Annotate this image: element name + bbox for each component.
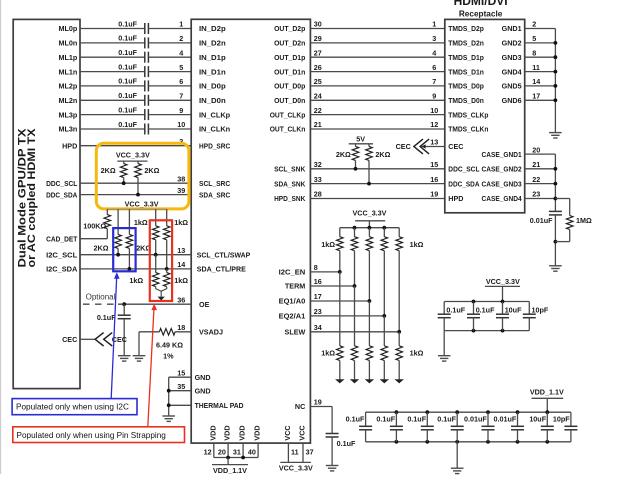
resistor R4 2Kohm I2C_SCL pullup — [117, 209, 119, 234]
wire HPD to IC pin 3 — [80, 145, 191, 147]
svg-text:VDD: VDD — [253, 425, 262, 440]
wire VCC bank top rail — [444, 301, 529, 303]
wire ML lane ML0p left segment — [80, 28, 145, 30]
wire TMDS lane OUT_D1p — [310, 56, 444, 58]
svg-text:VCC: VCC — [283, 425, 292, 440]
ground OE cap — [118, 356, 131, 361]
wire OE to IC pin 36 — [118, 303, 191, 305]
svg-text:31: 31 — [233, 447, 241, 456]
junction GND rail row 2 — [554, 41, 558, 45]
ground NC cap — [326, 466, 339, 471]
svg-text:SDA_SNK: SDA_SNK — [274, 179, 306, 188]
wire GND1 pin 2 — [525, 28, 556, 30]
ground VDD bank — [451, 468, 464, 473]
wire GND6 pin 17 — [525, 99, 556, 101]
page left edge — [0, 0, 2, 474]
strap arrow column 1 — [335, 379, 344, 383]
svg-text:10uF: 10uF — [505, 305, 522, 314]
svg-text:CEC: CEC — [396, 142, 411, 151]
strap arrow down — [158, 297, 165, 301]
wire NC pin 19 — [310, 406, 332, 408]
svg-text:9: 9 — [179, 106, 183, 115]
wire CASE_GND3 pin 22 — [525, 183, 556, 185]
svg-text:0.1uF: 0.1uF — [337, 439, 356, 448]
svg-text:2KΩ: 2KΩ — [336, 150, 351, 159]
svg-text:1kΩ: 1kΩ — [321, 240, 335, 249]
svg-text:0.1uF: 0.1uF — [118, 77, 137, 86]
capacitor 10uF VDD bank — [546, 412, 548, 426]
resistor 1kohm pulldown column 2 — [351, 346, 358, 361]
capacitor 0.1uF VDD bank — [365, 412, 367, 426]
junction VDD bank top — [545, 410, 549, 414]
junction strap column 4 — [382, 314, 386, 318]
wire VCC pin 11 — [287, 443, 289, 462]
svg-text:DDC_SDA: DDC_SDA — [46, 190, 77, 199]
resistor 1kohm pulldown column 3 — [366, 346, 373, 361]
svg-text:40: 40 — [248, 447, 256, 456]
wire VCC bank ground stem — [443, 331, 445, 356]
svg-text:7: 7 — [179, 92, 183, 101]
red leader line — [148, 310, 154, 427]
resistor R13 6.49Kohm VSADJ — [159, 329, 175, 336]
svg-text:GND6: GND6 — [502, 96, 522, 105]
svg-text:10: 10 — [177, 120, 185, 129]
svg-text:OE: OE — [199, 300, 210, 309]
junction GND rail row 4 — [554, 70, 558, 74]
ground IC GND — [162, 416, 175, 421]
wire CASE_GND rail — [554, 154, 556, 211]
svg-text:19: 19 — [430, 190, 438, 199]
svg-text:HPD_SNK: HPD_SNK — [274, 194, 306, 203]
svg-text:TMDS_CLKn: TMDS_CLKn — [448, 125, 488, 134]
capacitor 0.1uF VCC bank — [473, 302, 475, 315]
wire CEC from GPU — [80, 338, 95, 340]
wire GND3 pin 8 — [525, 56, 556, 58]
svg-text:1kΩ: 1kΩ — [174, 218, 188, 227]
wire VDD bank bottom rail — [366, 441, 571, 443]
HDMI/DVI receptacle J1 box — [445, 19, 525, 212]
svg-text:Populated only when using Pin: Populated only when using Pin Strapping — [17, 431, 167, 440]
svg-text:21: 21 — [314, 120, 322, 129]
svg-text:33: 33 — [314, 175, 322, 184]
AC coupling capacitor C3 0.1uF — [144, 52, 146, 63]
wire GND rail left — [168, 377, 170, 416]
svg-text:14: 14 — [532, 77, 540, 86]
svg-text:VDD_1.1V: VDD_1.1V — [530, 388, 564, 397]
svg-text:0.1uF: 0.1uF — [118, 105, 137, 114]
wire cap to ground junction — [554, 215, 556, 266]
svg-text:0.1uF: 0.1uF — [376, 415, 395, 424]
junction strap column 2 — [353, 284, 357, 288]
svg-text:SCL_SNK: SCL_SNK — [274, 165, 306, 174]
wire TMDS lane OUT_D1n — [310, 71, 444, 73]
svg-text:0.1uF: 0.1uF — [118, 19, 137, 28]
capacitor 0.01uF VDD bank — [517, 412, 519, 426]
svg-text:0.01uF: 0.01uF — [494, 415, 517, 424]
svg-text:32: 32 — [314, 160, 322, 169]
svg-text:2: 2 — [179, 34, 183, 43]
junction VCC rail — [353, 226, 357, 230]
junction thermal pad — [167, 403, 171, 407]
svg-text:2KΩ: 2KΩ — [144, 166, 159, 175]
wire VCC bank bottom rail — [444, 330, 529, 332]
svg-text:5V: 5V — [356, 134, 365, 143]
svg-text:7: 7 — [432, 77, 436, 86]
wire VDD bank ground stem — [456, 442, 458, 468]
wire VCC rail under yellow box — [107, 208, 166, 210]
svg-text:1kΩ: 1kΩ — [134, 218, 148, 227]
svg-text:ML2p: ML2p — [59, 82, 78, 91]
blue leader arrowhead — [114, 272, 120, 279]
svg-text:SDA_SRC: SDA_SRC — [199, 190, 230, 199]
svg-text:11: 11 — [532, 63, 540, 72]
wire ML lane to IC pin 2 — [148, 42, 191, 44]
capacitor 0.1uF VDD bank — [426, 412, 428, 426]
svg-text:17: 17 — [314, 292, 322, 301]
svg-text:23: 23 — [532, 190, 540, 199]
svg-text:5: 5 — [179, 63, 183, 72]
svg-text:3: 3 — [432, 34, 436, 43]
wire SDA_SNK to DDC_SDA — [310, 183, 444, 185]
wire strap column 3 lower — [368, 301, 370, 346]
svg-text:17: 17 — [532, 92, 540, 101]
svg-text:13: 13 — [177, 246, 185, 255]
resistor R9 1kohm SDA strap pullup — [166, 209, 168, 226]
wire ML lane ML1n left segment — [80, 71, 145, 73]
junction SDA strap — [165, 267, 169, 271]
junction VCC rail — [368, 226, 372, 230]
svg-text:TMDS_D1n: TMDS_D1n — [448, 67, 484, 76]
wire GND4 pin 11 — [525, 71, 556, 73]
junction I2C_SDA pullup — [127, 267, 131, 271]
wire ML lane to IC pin 4 — [148, 56, 191, 58]
svg-text:OUT_D2p: OUT_D2p — [274, 24, 306, 33]
resistor 1kohm pullup column 1 — [336, 237, 343, 251]
wire VDD power stem — [227, 458, 229, 465]
wire GND pin 15 — [169, 376, 192, 378]
resistor R12 1kohm SDA strap pulldown — [166, 269, 168, 273]
svg-text:15: 15 — [430, 160, 438, 169]
svg-text:VCC_3.3V: VCC_3.3V — [279, 464, 313, 473]
svg-text:TMDS_D0n: TMDS_D0n — [448, 96, 484, 105]
wire pin row to column 5 — [310, 331, 399, 333]
wire strap column 4 upper — [383, 228, 385, 237]
svg-text:0.1uF: 0.1uF — [118, 34, 137, 43]
svg-text:GND3: GND3 — [502, 53, 522, 62]
AC coupling capacitor C8 0.1uF — [144, 124, 146, 135]
wire VDD pin 20 — [227, 443, 229, 457]
redriver IC U1 box — [191, 19, 310, 443]
junction VDD bank bottom — [455, 440, 459, 444]
svg-text:OUT_CLKn: OUT_CLKn — [270, 125, 306, 134]
junction DDC_SDA pullup — [367, 182, 371, 186]
strap arrow column 2 — [350, 379, 359, 383]
wire CAD_DET — [80, 238, 107, 240]
svg-text:ML2n: ML2n — [59, 96, 78, 105]
svg-text:GND2: GND2 — [502, 39, 522, 48]
wire strap column 3 upper — [368, 228, 370, 237]
wire ML lane to IC pin 9 — [148, 114, 191, 116]
wire GND5 pin 14 — [525, 85, 556, 87]
wire DDC_SCL from GPU to IC pin 38 — [80, 182, 191, 184]
svg-text:0.01uF: 0.01uF — [464, 415, 487, 424]
svg-text:36: 36 — [177, 295, 185, 304]
wire VCC stem to rail — [502, 286, 504, 301]
svg-text:0.1uF: 0.1uF — [118, 62, 137, 71]
junction GND rail row 3 — [554, 55, 558, 59]
svg-text:EQ2/A1: EQ2/A1 — [279, 312, 306, 321]
wire VDD pin 31 — [242, 443, 244, 457]
wire VSADJ from IC pin 18 — [175, 331, 191, 333]
svg-text:OUT_D0n: OUT_D0n — [274, 96, 305, 105]
wire ML lane ML2n left segment — [80, 99, 145, 101]
svg-text:HPD: HPD — [62, 141, 77, 150]
svg-text:VCC_3.3V: VCC_3.3V — [125, 200, 159, 209]
wire SCL_SNK to DDC_SCL — [310, 168, 444, 170]
svg-text:I2C_EN: I2C_EN — [279, 268, 306, 277]
svg-text:SDA_CTL/PRE: SDA_CTL/PRE — [197, 265, 246, 274]
svg-text:9: 9 — [432, 92, 436, 101]
wire HPD_SNK to HPD — [310, 198, 444, 200]
svg-text:OUT_D2n: OUT_D2n — [274, 39, 305, 48]
ground VSADJ — [133, 356, 146, 361]
svg-text:11: 11 — [291, 447, 299, 456]
svg-text:39: 39 — [177, 186, 185, 195]
svg-text:GND5: GND5 — [502, 82, 522, 91]
wire DDC_SDA from GPU to IC pin 39 — [80, 194, 191, 196]
svg-text:20: 20 — [218, 447, 226, 456]
capacitor 0.1uF VDD bank — [395, 412, 397, 426]
wire strap column 5 lower — [398, 332, 400, 346]
svg-text:OUT_D1n: OUT_D1n — [274, 67, 305, 76]
svg-text:12: 12 — [204, 447, 212, 456]
svg-text:SCL_SRC: SCL_SRC — [199, 179, 230, 188]
svg-text:35: 35 — [177, 382, 185, 391]
svg-text:VCC_3.3V: VCC_3.3V — [116, 151, 150, 160]
svg-text:IN_D0p: IN_D0p — [199, 82, 226, 91]
junction SCL strap — [154, 253, 158, 257]
capacitor 10pF VDD bank — [570, 412, 572, 426]
svg-text:1kΩ: 1kΩ — [410, 349, 424, 358]
junction VDD bank bottom — [516, 440, 520, 444]
resistor R1 2Kohm SCL_SRC pullup — [123, 161, 125, 164]
svg-text:VCC_3.3V: VCC_3.3V — [486, 277, 520, 286]
wire pin row to column 2 — [310, 285, 354, 287]
wire strap column 5 upper — [398, 228, 400, 237]
junction CASE_GND rail — [554, 182, 558, 186]
svg-text:OUT_CLKp: OUT_CLKp — [270, 110, 306, 119]
junction VCC bank bottom — [472, 329, 476, 333]
svg-text:GND: GND — [195, 386, 211, 395]
AC coupling capacitor C4 0.1uF — [144, 66, 146, 77]
svg-text:GND1: GND1 — [502, 24, 522, 33]
svg-text:TMDS_CLKp: TMDS_CLKp — [448, 110, 489, 119]
junction VDD bus 20 — [226, 456, 230, 460]
svg-text:27: 27 — [314, 48, 322, 57]
wire strap pulldown converge — [156, 287, 162, 297]
svg-text:DDC_SCL: DDC_SCL — [448, 165, 480, 174]
junction VCC bank top — [501, 300, 505, 304]
wire pin row to column 3 — [310, 300, 369, 302]
strap arrow column 4 — [380, 379, 389, 383]
wire TMDS lane OUT_D0n — [310, 99, 444, 101]
svg-text:2KΩ: 2KΩ — [375, 150, 390, 159]
wire VDD pin 40 — [257, 443, 259, 457]
svg-text:GND: GND — [195, 373, 211, 382]
svg-text:10pF: 10pF — [553, 415, 570, 424]
svg-text:Optional: Optional — [86, 292, 116, 301]
blue highlight box I2C strap — [113, 228, 135, 271]
svg-text:IN_D2n: IN_D2n — [199, 39, 226, 48]
svg-text:CAD_DET: CAD_DET — [46, 234, 78, 243]
svg-text:19: 19 — [314, 398, 322, 407]
wire GND pin 35 — [169, 390, 192, 392]
svg-text:EQ1/A0: EQ1/A0 — [279, 297, 306, 306]
resistor 1kohm pulldown column 4 — [381, 346, 388, 361]
ground case ground — [549, 266, 562, 271]
svg-text:OUT_D1p: OUT_D1p — [274, 53, 306, 62]
wire TMDS lane OUT_D2n — [310, 42, 444, 44]
wire strap column 2 upper — [354, 228, 356, 237]
svg-text:10pF: 10pF — [532, 305, 549, 314]
svg-text:ML0p: ML0p — [59, 24, 78, 33]
wire 1Mohm top branch — [555, 198, 569, 200]
wire TMDS lane OUT_CLKp — [310, 114, 444, 116]
junction VDD bank top — [516, 410, 520, 414]
svg-text:22: 22 — [314, 106, 322, 115]
svg-text:5: 5 — [532, 34, 536, 43]
AC coupling capacitor C7 0.1uF — [144, 109, 146, 120]
yellow highlight box — [96, 143, 189, 209]
svg-text:ML3n: ML3n — [59, 125, 78, 134]
svg-text:CEC: CEC — [448, 142, 463, 151]
junction I2C_SCL pullup — [116, 253, 120, 257]
svg-text:ML0n: ML0n — [59, 39, 78, 48]
svg-text:18: 18 — [177, 323, 185, 332]
wire ML lane ML3n left segment — [80, 128, 145, 130]
junction OE bypass cap — [122, 302, 126, 306]
svg-text:DDC_SCL: DDC_SCL — [46, 179, 78, 188]
resistor R8 1kohm SCL strap pullup — [155, 209, 157, 226]
svg-text:VCC: VCC — [298, 425, 307, 440]
AC coupling capacitor C6 0.1uF — [144, 95, 146, 106]
svg-text:0.1uF: 0.1uF — [118, 91, 137, 100]
capacitor C9 0.1uF OE — [123, 304, 125, 315]
power symbol VCC_3.3V bottom — [280, 461, 311, 463]
wire I2C_SDA from GPU to IC pin 14 — [80, 268, 191, 270]
junction VCC bank top — [472, 300, 476, 304]
svg-text:GND4: GND4 — [502, 67, 522, 76]
svg-text:4: 4 — [179, 48, 183, 57]
svg-text:CASE_GND3: CASE_GND3 — [482, 179, 522, 188]
svg-text:IN_CLKn: IN_CLKn — [199, 125, 230, 134]
svg-text:HPD: HPD — [448, 194, 463, 203]
red annotation box — [13, 427, 185, 443]
svg-text:0.1uF: 0.1uF — [407, 415, 426, 424]
wire ML lane to IC pin 1 — [148, 28, 191, 30]
junction strap column 5 — [397, 330, 401, 334]
capacitor 0.01uF VDD bank — [487, 412, 489, 426]
svg-text:VDD: VDD — [208, 425, 217, 440]
svg-text:8: 8 — [314, 263, 318, 272]
capacitor 0.1uF VDD bank — [456, 412, 458, 426]
svg-text:100KΩ: 100KΩ — [83, 221, 106, 230]
svg-text:15: 15 — [177, 368, 185, 377]
junction VDD bank top — [486, 410, 490, 414]
wire pin row to column 1 — [310, 271, 339, 273]
wire pin row to column 4 — [310, 315, 384, 317]
svg-text:CASE_GND2: CASE_GND2 — [482, 165, 522, 174]
wire ML lane to IC pin 6 — [148, 85, 191, 87]
svg-text:14: 14 — [177, 260, 185, 269]
junction VDD bank bottom — [395, 440, 399, 444]
blue leader line — [111, 279, 116, 399]
svg-text:1kΩ: 1kΩ — [129, 276, 143, 285]
svg-text:1kΩ: 1kΩ — [410, 240, 424, 249]
junction CASE_GND rail — [554, 167, 558, 171]
junction DDC_SCL pullup — [354, 167, 358, 171]
svg-text:2KΩ: 2KΩ — [94, 243, 109, 252]
svg-text:Receptacle: Receptacle — [459, 9, 503, 19]
AC coupling capacitor C2 0.1uF — [144, 37, 146, 48]
junction VDD bank top — [425, 410, 429, 414]
junction VDD bank top — [455, 410, 459, 414]
svg-text:ML1n: ML1n — [59, 67, 78, 76]
svg-text:0.1uF: 0.1uF — [476, 305, 495, 314]
wire strap column 1 upper — [339, 228, 341, 237]
svg-text:TMDS_D0p: TMDS_D0p — [448, 82, 484, 91]
wire ML lane ML2p left segment — [80, 85, 145, 87]
wire VSADJ to ground — [139, 331, 159, 333]
ground VCC bank — [438, 356, 451, 361]
wire VDD bus — [214, 457, 258, 459]
svg-text:TERM: TERM — [285, 282, 305, 291]
junction VDD bank top — [395, 410, 399, 414]
svg-text:1MΩ: 1MΩ — [576, 216, 592, 225]
CEC off-page connector chevrons at GPU — [95, 333, 112, 346]
blue annotation box — [12, 399, 137, 415]
svg-text:HDMI/DVI: HDMI/DVI — [454, 0, 508, 8]
svg-text:1: 1 — [432, 20, 436, 29]
svg-text:25: 25 — [314, 77, 322, 86]
svg-text:12: 12 — [430, 120, 438, 129]
resistor 1kohm pullup column 3 — [366, 237, 373, 251]
svg-text:IN_D0n: IN_D0n — [199, 96, 226, 105]
svg-text:IN_D2p: IN_D2p — [199, 24, 226, 33]
svg-text:16: 16 — [314, 277, 322, 286]
wire GND rail — [554, 29, 556, 133]
resistor 1kohm pullup column 4 — [381, 237, 388, 251]
svg-text:6: 6 — [432, 63, 436, 72]
wire strap column 1 lower — [339, 272, 341, 346]
AC coupling capacitor C1 0.1uF — [144, 23, 146, 34]
svg-text:22: 22 — [532, 175, 540, 184]
CEC off-page connector chevrons — [414, 139, 429, 154]
svg-text:29: 29 — [314, 34, 322, 43]
wire strap column 2 lower — [354, 286, 356, 346]
junction GND 35 — [167, 389, 171, 393]
svg-text:0.1uF: 0.1uF — [446, 305, 465, 314]
wire ML lane to IC pin 10 — [148, 128, 191, 130]
svg-text:VCC_3.3V: VCC_3.3V — [353, 208, 387, 217]
svg-text:10: 10 — [430, 106, 438, 115]
svg-text:CASE_GND1: CASE_GND1 — [482, 150, 522, 159]
junction strap column 3 — [368, 299, 372, 303]
svg-text:10uF: 10uF — [529, 415, 546, 424]
wire VCC pin 37 — [302, 443, 304, 462]
svg-text:0.1uF: 0.1uF — [118, 48, 137, 57]
wire CASE_GND1 pin 20 — [525, 153, 556, 155]
